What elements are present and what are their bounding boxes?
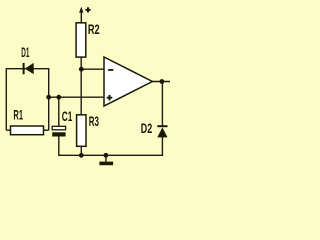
resistor R2 — [76, 23, 86, 57]
ground — [104, 153, 109, 158]
op-amp U1 — [104, 57, 152, 106]
wire C1 bottom lead — [58, 136, 60, 155]
junction node output — [160, 79, 165, 84]
wire supply arrow stem — [80, 11, 82, 23]
wire D1 branch top — [6, 69, 48, 131]
wire op-amp output — [152, 81, 170, 83]
wire R1 leads — [6, 129, 10, 131]
wire R3 bottom lead — [80, 146, 82, 155]
wire R2 to R3 vertical — [80, 57, 82, 115]
svg-text:D1: D1 — [21, 44, 29, 60]
wire non-inverting input — [49, 96, 105, 98]
wire D2 branch — [161, 82, 163, 127]
svg-text:R3: R3 — [89, 113, 99, 129]
wire C1 top lead — [58, 97, 60, 126]
junction node C1 top — [56, 95, 61, 100]
wire inverting input — [81, 68, 104, 70]
svg-text:D2: D2 — [141, 120, 153, 136]
diode D2 — [157, 125, 167, 137]
resistor R3 — [77, 115, 86, 147]
junction node D1/R1/+input — [46, 95, 51, 100]
svg-text:C1: C1 — [62, 108, 73, 124]
svg-text:R2: R2 — [88, 21, 100, 37]
diode D1 — [23, 63, 34, 74]
resistor R1 — [11, 126, 44, 135]
junction node R3 bottom — [79, 153, 84, 158]
svg-text:R1: R1 — [13, 107, 23, 123]
plus supply symbol — [85, 7, 90, 12]
capacitor C1 — [52, 126, 65, 130]
junction node inverting input — [79, 67, 84, 72]
power arrowhead — [79, 7, 83, 13]
wire ground rail — [58, 154, 163, 156]
